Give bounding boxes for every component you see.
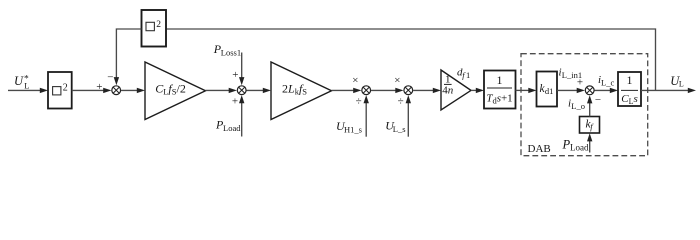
sign multiply M2: [394, 75, 400, 87]
block SQ2 squarer feedback: [142, 10, 167, 47]
svg-text:Tds+1: Tds+1: [486, 93, 512, 106]
wire PLoss1 to S2: [239, 53, 244, 86]
gain triangle G2: [271, 62, 332, 120]
block SQ1 squarer: [48, 72, 72, 109]
block kd1: [537, 72, 558, 107]
sign multiply M1: [352, 75, 358, 87]
svg-text:4n: 4n: [442, 85, 454, 97]
label iL_in1: [559, 67, 583, 81]
svg-text:1: 1: [627, 73, 633, 87]
sign plus S1: [96, 81, 102, 93]
svg-text:1: 1: [497, 73, 503, 87]
svg-text:+: +: [96, 81, 102, 93]
wire kd1 to sum S3: [557, 88, 585, 93]
svg-text:L_s: L_s: [393, 124, 406, 134]
wire S2 to gain G2: [247, 88, 272, 93]
summing junction S3: [585, 86, 594, 95]
multiplier junction M1: [362, 86, 371, 95]
sign divide M2: [398, 96, 404, 108]
block integrator 1/(CLs): [618, 72, 641, 106]
sign divide M1: [356, 96, 362, 108]
svg-text:L_o: L_o: [571, 101, 585, 111]
svg-text:−: −: [107, 71, 113, 83]
summing junction S2: [237, 86, 246, 95]
wire U2 to kd1: [516, 88, 537, 93]
gain triangle G3: [441, 70, 471, 110]
svg-text:L: L: [24, 81, 29, 91]
label iL_o: [568, 98, 585, 112]
svg-text:+: +: [232, 95, 238, 107]
label PLoad: [215, 118, 241, 133]
label DAB: [528, 143, 551, 155]
feedback wire tap to top: [166, 29, 656, 90]
svg-text:÷: ÷: [356, 96, 362, 108]
wire G3 to block U2: [471, 88, 484, 93]
wire SQ1 to sum S1: [72, 88, 112, 93]
svg-text:+: +: [232, 69, 238, 81]
svg-text:DAB: DAB: [528, 143, 551, 155]
wire input: [8, 88, 48, 93]
wire PLoad to S2: [239, 95, 244, 136]
label UL* input reference: [14, 74, 30, 91]
svg-text:+: +: [577, 77, 583, 89]
svg-text:Load: Load: [223, 123, 241, 133]
block U2 delay 1/(Tds+1): [484, 71, 516, 109]
sign minus S3: [595, 94, 601, 106]
svg-text:L_c: L_c: [601, 78, 614, 88]
sign plus S3: [577, 77, 583, 89]
sign minus S1: [107, 71, 113, 83]
wire PLoad to kf: [587, 133, 592, 152]
svg-text:2: 2: [156, 20, 161, 30]
label UL output: [670, 74, 684, 89]
label iL_c: [598, 74, 614, 88]
wire S3 to integrator: [595, 88, 619, 93]
svg-text:×: ×: [394, 75, 400, 87]
sign plus S2 bottom: [232, 95, 238, 107]
wire S1 to gain G1: [121, 88, 145, 93]
label UL_s: [385, 119, 405, 134]
label PLoss1: [213, 42, 241, 57]
svg-text:−: −: [595, 94, 601, 106]
wire UH1_s to M1: [364, 95, 369, 137]
summing junction S1: [112, 86, 121, 95]
svg-text:×: ×: [352, 75, 358, 87]
feedback wire SQ2 to S1: [114, 29, 142, 85]
label PLoad DAB: [562, 138, 589, 153]
svg-text:1: 1: [466, 70, 470, 80]
svg-text:Loss1: Loss1: [221, 47, 241, 57]
wire UL_s to M2: [406, 95, 411, 137]
block kf: [580, 117, 600, 134]
label UH1_s: [336, 119, 362, 134]
svg-text:2: 2: [63, 83, 68, 94]
wire M1 to mult M2: [371, 88, 404, 93]
wire output: [641, 88, 696, 93]
svg-text:d1: d1: [545, 86, 554, 96]
wire G1 to sum S2: [206, 88, 237, 93]
multiplier junction M2: [404, 86, 413, 95]
sign plus S2 top: [232, 69, 238, 81]
DAB dashed box: [521, 54, 648, 156]
svg-text:÷: ÷: [398, 96, 404, 108]
svg-text:CLfS/2: CLfS/2: [155, 82, 186, 97]
svg-text:Load: Load: [570, 143, 589, 153]
wire M2 to gain G3: [413, 88, 441, 93]
gain triangle G1: [145, 62, 206, 120]
svg-text:U: U: [14, 74, 24, 88]
wire kf to S3: [587, 95, 592, 116]
wire G2 to mult M1: [332, 88, 362, 93]
svg-text:L: L: [679, 80, 684, 89]
svg-text:H1_s: H1_s: [344, 124, 362, 134]
label df1: [457, 67, 470, 81]
